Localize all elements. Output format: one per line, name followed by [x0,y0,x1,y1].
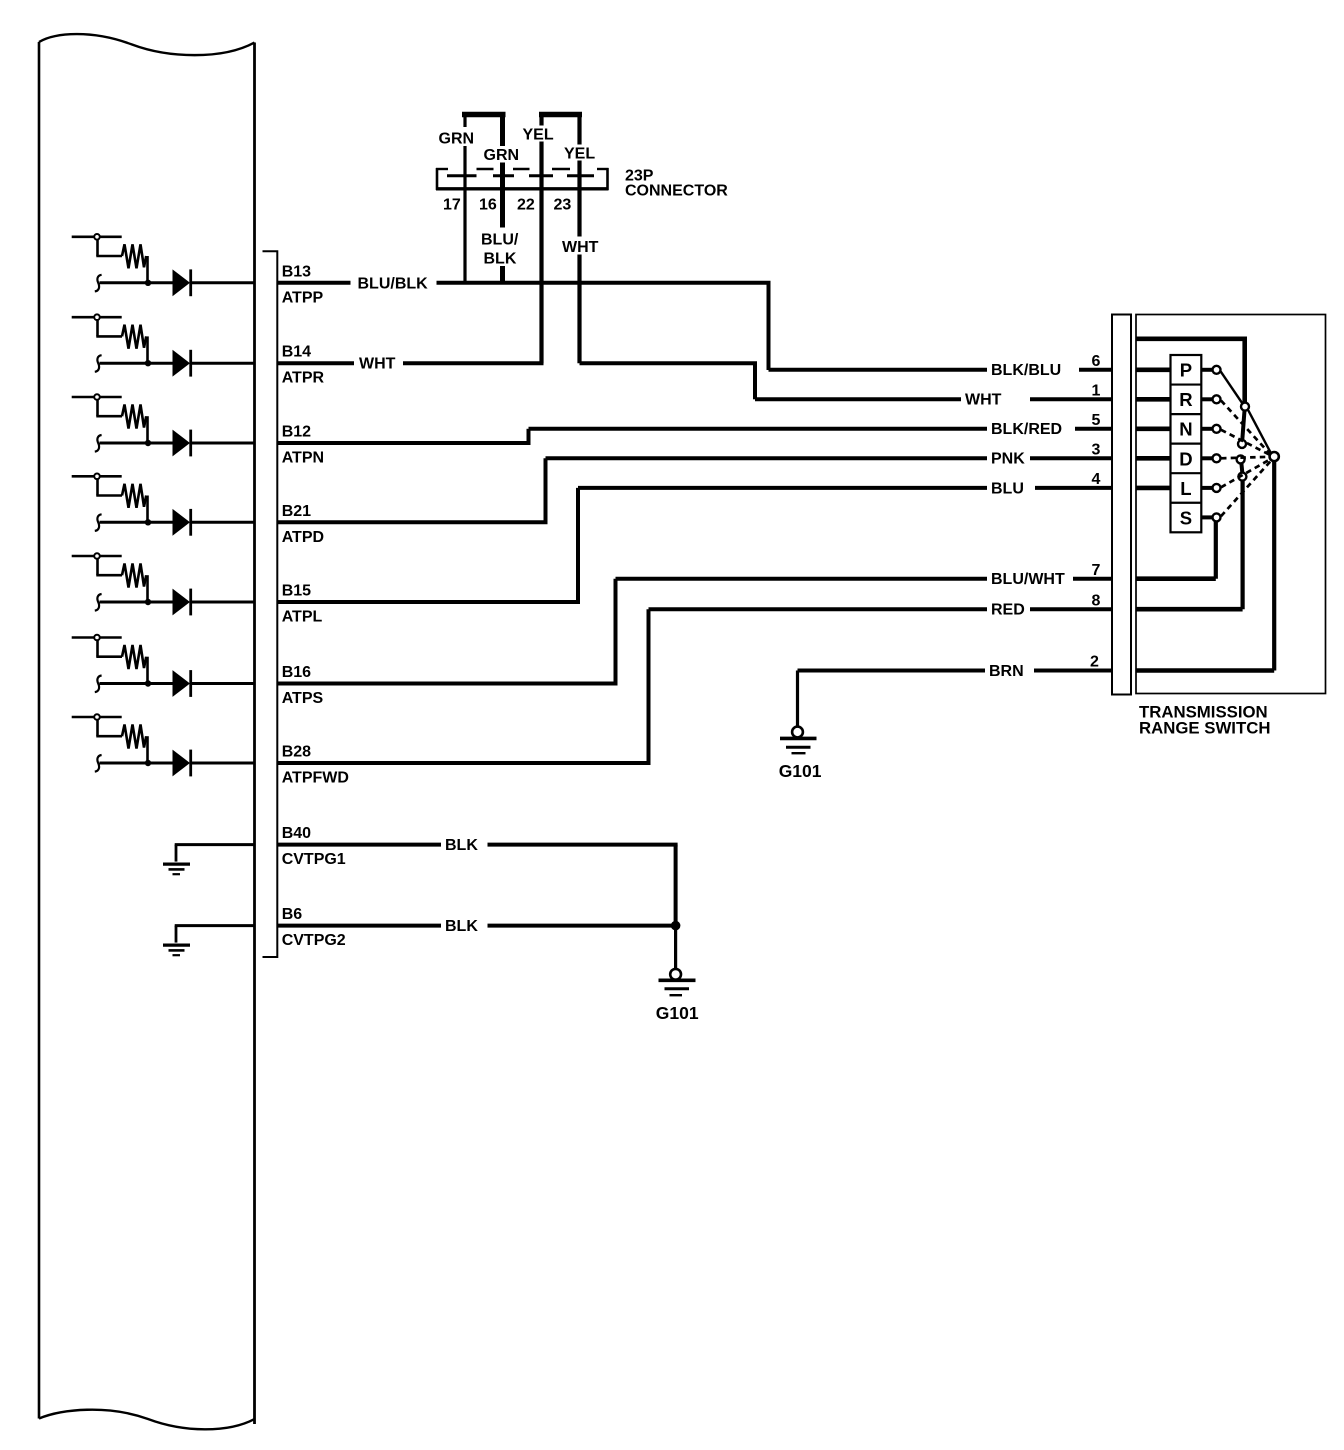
wire pin 8 inside switch [1136,607,1243,612]
svg-text:5: 5 [1092,412,1101,429]
wire resistor to node (ATPN cell) [146,416,149,443]
svg-text:GRN: GRN [439,131,475,148]
gate divider [1171,472,1202,474]
dashed throw to D [1221,457,1269,459]
svg-text:BLK/BLU: BLK/BLU [991,362,1061,379]
contact stub P [1201,368,1212,372]
pin 22 leg [539,115,543,364]
switch contact circle (ATPR cell) [94,314,100,320]
svg-text:16: 16 [479,197,497,214]
switch wiper curl (ATPL cell) [95,594,102,611]
contact circle D [1213,454,1221,462]
svg-text:BLK: BLK [484,251,517,268]
wire pin to L gate [1136,486,1172,491]
svg-text:B16: B16 [282,664,311,681]
wire pivot to pin 2 [1272,461,1276,670]
contact circle S [1213,513,1221,521]
wire G101 to BRN net [798,669,986,673]
svg-text:ATPFWD: ATPFWD [282,770,349,787]
wire from contact to resistor (ATPD cell) [96,479,99,496]
resistor (ATPL pull-up) [122,564,146,588]
gate divider [1171,413,1202,415]
junction dot (ATPR cell) [145,360,151,366]
wire WHT stub to pin 1 [1030,397,1112,401]
wire resistor to node (ATPR cell) [146,336,149,363]
svg-text:B14: B14 [282,344,311,361]
diode (ATPFWD cell) [173,750,191,777]
svg-text:R: R [1179,389,1192,410]
wire resistor to node (ATPS cell) [146,657,149,684]
wire B16/ATPS to BLU/WHT net [277,682,617,686]
wire pin to N gate [1136,426,1172,431]
dashed throw to N [1221,430,1270,455]
svg-text:8: 8 [1092,593,1101,610]
svg-text:B21: B21 [282,503,311,520]
svg-text:GRN: GRN [484,147,520,164]
diode (ATPS cell) [173,670,191,697]
wire from contact to resistor (ATPN cell) [96,400,99,417]
svg-text:WHT: WHT [562,239,599,256]
YEL wire label (pin 22) [521,126,556,142]
wire diode to pin ATPD [190,521,255,524]
wire B13/ATPP to BLU/BLK net [277,281,350,285]
resistor (ATPP pull-up) [122,244,146,268]
wire resistor to node (ATPP cell) [146,256,149,283]
dashed throw to S [1221,462,1270,517]
GRN wire label (pin 17) [437,127,478,146]
gate divider [1171,502,1202,504]
common pivot circle [1270,452,1279,461]
svg-text:3: 3 [1092,442,1101,459]
svg-text:ATPR: ATPR [282,370,325,387]
wire pin to D gate [1136,456,1172,461]
svg-text:22: 22 [517,197,535,214]
wire pin to R gate [1136,397,1172,402]
switch contact circle (ATPN cell) [94,394,100,400]
ECM/PCM body (torn strip outline) [39,34,255,55]
second arm lower circle [1238,473,1246,481]
wire B14/ATPR to WHT net [277,361,354,365]
junction dot at G101 drop [671,921,681,931]
svg-text:BLK: BLK [445,918,478,935]
svg-text:B13: B13 [282,263,311,280]
svg-text:1: 1 [1092,383,1101,400]
resistor (ATPN pull-up) [122,405,146,429]
junction dot (ATPFWD cell) [145,760,151,766]
jumper loop pins 22-23 [539,112,582,118]
switch wiper curl (ATPFWD cell) [95,755,102,772]
YEL wire label (pin 23) [563,145,598,161]
switch arm P to joint (solid) [1221,371,1243,403]
svg-text:CVTPG2: CVTPG2 [282,932,346,949]
svg-text:B40: B40 [282,825,311,842]
wire pin 7 inside switch (to S contact) [1136,576,1216,581]
svg-text:CONNECTOR: CONNECTOR [625,183,728,200]
switch wiper curl (ATPD cell) [95,514,102,531]
switch contact rail (ATPS cell) [72,636,122,639]
GRN wire label (pin 16) [482,146,522,163]
wire B40/CVTPG1 to BLK net [277,843,441,847]
wire BRN stub to pin 2 [1034,669,1112,673]
wire diode to pin ATPL [190,601,255,604]
gate block PRNDLS [1171,355,1202,532]
dashed throw to L [1221,460,1270,488]
switch contact rail (ATPD cell) [72,475,122,478]
wire RED stub to pin 8 [1030,607,1112,611]
wire resistor to node (ATPD cell) [146,496,149,523]
svg-text:2: 2 [1090,654,1099,671]
wire second arm to pin 8 [1240,481,1244,610]
contact circle P [1213,366,1221,374]
gate divider [1171,383,1202,385]
resistor (ATPFWD pull-up) [122,725,146,749]
junction dot (ATPN cell) [145,440,151,446]
wire diode to pin ATPFWD [190,762,255,765]
svg-text:4: 4 [1092,471,1101,488]
contact stub R [1201,397,1212,401]
wire from contact to resistor (ATPS cell) [96,640,99,657]
wire from contact to resistor (ATPL cell) [96,559,99,576]
wire B28/ATPFWD to RED net [277,761,650,765]
svg-text:ATPL: ATPL [282,609,323,626]
svg-text:B6: B6 [282,906,303,923]
svg-text:ATPP: ATPP [282,289,324,306]
switch contact circle (ATPFWD cell) [94,714,100,720]
wire PNK stub to pin 3 [1030,456,1112,460]
pin 17 leg [463,115,466,283]
junction dot (ATPS cell) [145,680,151,686]
diode (ATPN cell) [173,430,191,457]
wire ground to pin CVTPG2 [175,924,255,927]
wire BLK to ground G101 [488,924,676,928]
svg-text:ATPS: ATPS [282,690,324,707]
switch contact circle (ATPP cell) [94,234,100,240]
wire to diode (ATPP cell) [100,281,174,284]
switch contact circle (ATPD cell) [94,474,100,480]
contact stub L [1201,486,1212,490]
contact circle R [1213,395,1221,403]
switch contact rail (ATPP cell) [72,236,122,239]
switch contact rail (ATPN cell) [72,396,122,399]
diode (ATPD cell) [173,509,191,536]
wire diode to pin ATPN [190,442,255,445]
svg-text:D: D [1179,448,1192,469]
wire diode to pin ATPP [190,281,255,284]
wire BLU stub to pin 4 [1035,486,1112,490]
svg-text:6: 6 [1092,353,1101,370]
svg-text:YEL: YEL [523,127,554,144]
contact circle L [1213,484,1221,492]
diode (ATPL cell) [173,589,191,616]
svg-text:N: N [1179,419,1192,440]
svg-text:BLK/RED: BLK/RED [991,421,1062,438]
second arm segment [1239,463,1244,472]
contact stub S [1201,515,1212,519]
svg-text:G101: G101 [779,761,822,781]
svg-text:RED: RED [991,602,1025,619]
arm lower segment [1242,411,1244,440]
pin 16 leg (BLU/BLK) [500,112,505,283]
diode (ATPR cell) [173,350,191,377]
svg-text:BLU/: BLU/ [481,232,519,249]
svg-text:17: 17 [443,197,461,214]
wire S contact to pin 7 [1214,521,1218,578]
switch contact circle (ATPS cell) [94,635,100,641]
wire to diode (ATPD cell) [100,521,174,524]
wire diode to pin ATPS [190,682,255,685]
svg-text:B12: B12 [282,424,311,441]
internal ground (CVTPG1) [175,845,178,862]
ground G101 (BRN wire) [780,671,817,754]
switch contact rail (ATPR cell) [72,316,122,319]
BLU/BLK wire label (pin 16) [479,228,524,267]
wire pin to P gate [1136,367,1172,372]
wire BLK/RED stub to pin 5 [1075,427,1112,431]
svg-text:S: S [1180,507,1192,528]
switch wiper curl (ATPR cell) [95,355,102,372]
svg-text:BLU/BLK: BLU/BLK [358,275,429,292]
svg-text:23: 23 [554,197,572,214]
wire B21/ATPD to PNK net [277,520,547,524]
svg-text:YEL: YEL [564,146,595,163]
wire WHT label to pin 22 leg [403,361,544,365]
svg-text:BLK: BLK [445,837,478,854]
contact stub D [1201,456,1212,460]
wire to diode (ATPR cell) [100,362,174,365]
switch wiper curl (ATPP cell) [95,275,102,292]
wire BLU/BLK net to 23P and range switch [437,281,771,285]
wire pin 2 inside switch (to common pivot) [1136,668,1274,673]
WHT wire label (pin 23) [560,237,602,255]
svg-text:RANGE SWITCH: RANGE SWITCH [1139,719,1270,738]
wire BLK/BLU stub to pin 6 [1079,368,1112,372]
wire B6/CVTPG2 to BLK net [277,924,441,928]
switch contact circle (ATPL cell) [94,553,100,559]
svg-text:7: 7 [1092,562,1101,579]
switch arm joint to pivot (solid) [1248,410,1271,453]
junction dot (ATPP cell) [145,280,151,286]
wire BLK to ground junction [488,843,678,847]
23P connector body [436,168,609,190]
switch arm feed (thick) [1136,339,1245,403]
resistor (ATPS pull-up) [122,645,146,669]
switch contact rail (ATPFWD cell) [72,716,122,719]
wire to diode (ATPL cell) [100,601,174,604]
switch wiper curl (ATPN cell) [95,435,102,452]
jumper loop pins 17-16 [462,112,506,118]
wire B15/ATPL to BLU net [277,600,580,604]
junction dot (ATPL cell) [145,599,151,605]
switch wiper curl (ATPS cell) [95,676,102,693]
ECM connector bracket [263,251,278,957]
wire to diode (ATPN cell) [100,442,174,445]
svg-text:WHT: WHT [965,392,1002,409]
dashed throw to R [1221,401,1270,454]
svg-text:ATPN: ATPN [282,450,324,467]
range switch 8P connector [1112,315,1131,695]
arm end circle [1238,440,1246,448]
transmission range switch housing [1136,315,1326,694]
gate divider [1171,443,1202,445]
pin 23 leg (WHT) [577,115,581,364]
resistor (ATPD pull-up) [122,484,146,508]
contact circle N [1213,425,1221,433]
svg-text:P: P [1180,360,1192,381]
svg-text:BLU/WHT: BLU/WHT [991,571,1065,588]
svg-text:B28: B28 [282,744,311,761]
wire from contact to resistor (ATPFWD cell) [96,720,99,737]
svg-text:ATPD: ATPD [282,529,324,546]
wire ground to pin CVTPG1 [175,843,255,846]
junction dot (ATPD cell) [145,519,151,525]
wire BLU/WHT stub to pin 7 [1073,577,1112,581]
internal ground (CVTPG2) [175,926,178,943]
svg-text:WHT: WHT [359,356,396,373]
wire B12/ATPN to BLK/RED net [277,441,530,445]
wire to diode (ATPS cell) [100,682,174,685]
svg-text:CVTPG1: CVTPG1 [282,851,346,868]
ground G101 (CVTPG grounds) [659,926,696,996]
contact stub N [1201,427,1212,431]
svg-text:G101: G101 [656,1003,699,1023]
svg-text:L: L [1180,478,1191,499]
wire from contact to resistor (ATPR cell) [96,320,99,337]
wire resistor to node (ATPL cell) [146,575,149,602]
second arm top circle [1237,455,1245,463]
svg-text:B15: B15 [282,583,311,600]
wire pin 23 leg to range switch pin 1 [580,361,758,365]
arm joint circle (upper) [1241,403,1249,411]
wire from contact to resistor (ATPP cell) [96,239,99,256]
diode (ATPP cell) [173,269,191,296]
svg-text:PNK: PNK [991,451,1025,468]
resistor (ATPR pull-up) [122,325,146,349]
switch contact rail (ATPL cell) [72,555,122,558]
svg-text:BRN: BRN [989,663,1024,680]
svg-text:BLU: BLU [991,480,1024,497]
wire diode to pin ATPR [190,362,255,365]
wire resistor to node (ATPFWD cell) [146,736,149,763]
wire to diode (ATPFWD cell) [100,762,174,765]
